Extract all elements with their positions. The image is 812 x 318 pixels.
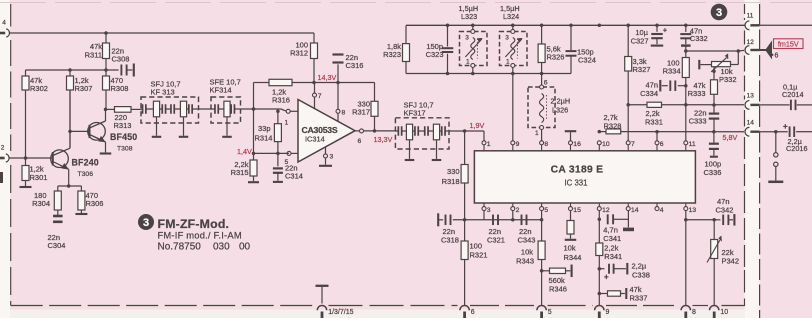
left white margin (0, 0, 10, 318)
resistor R302 47k (25, 70, 27, 76)
svg-text:12: 12 (602, 207, 610, 214)
resistor R313 220 (104, 108, 108, 112)
IC pin 10 top (597, 141, 601, 145)
IC pin 2 bottom (512, 203, 514, 206)
op-amp pin 7 (314, 83, 316, 93)
IC pin 6 top (655, 141, 659, 145)
svg-text:10: 10 (602, 141, 610, 148)
junction bus x685.8 (684, 24, 688, 28)
svg-text:IC314: IC314 (305, 135, 325, 144)
svg-text:BF240: BF240 (72, 158, 99, 168)
svg-text:22n: 22n (489, 227, 502, 236)
connector 9 bottom (598, 303, 600, 306)
svg-text:R337: R337 (630, 294, 648, 303)
svg-text:R321: R321 (470, 251, 488, 260)
badge 3 top right (711, 4, 728, 21)
inductor L326 2,2uH (528, 87, 555, 128)
svg-text:R312: R312 (290, 48, 308, 57)
top dashed border (0, 2, 812, 4)
resistor R301 1,2k + ground (25, 158, 27, 166)
op-amp pin 1 (290, 110, 298, 112)
svg-text:5: 5 (548, 309, 552, 316)
connector 8 bottom (685, 303, 687, 306)
jumper link + terminal below C2016 (775, 132, 777, 153)
svg-text:4: 4 (2, 20, 6, 27)
white connector strip (745, 0, 760, 318)
junction row73 x472.8 (471, 72, 475, 76)
svg-text:R333: R333 (688, 89, 706, 98)
svg-text:R314: R314 (255, 133, 273, 142)
junction bus x657 (655, 24, 659, 28)
bottom border seg5 (606, 305, 680, 307)
wire input to pin 1 (254, 109, 289, 111)
svg-text:KF317: KF317 (404, 109, 426, 118)
resistor R346 560k (540, 269, 544, 273)
IC pin 14 bottom (627, 203, 629, 206)
junction bus x628.2 (626, 24, 630, 28)
resistor R317 330 (374, 83, 376, 102)
svg-text:13: 13 (747, 93, 755, 100)
svg-text:5,8V: 5,8V (723, 133, 738, 142)
IC pin 16 top (569, 141, 573, 145)
IC pin 7 top (626, 141, 630, 145)
wire row to C342/P342 (686, 219, 714, 221)
svg-text:IC 331: IC 331 (565, 179, 588, 188)
resistor R344 10k + ground (570, 211, 572, 221)
svg-text:R341: R341 (604, 252, 622, 261)
capacitor C336 100p (713, 132, 715, 143)
svg-text:6: 6 (660, 141, 664, 148)
svg-text:+: + (604, 273, 609, 282)
svg-text:R323: R323 (383, 50, 401, 59)
svg-text:C333: C333 (689, 117, 707, 126)
svg-text:R308: R308 (111, 84, 129, 93)
bottom border seg1 (11, 305, 316, 307)
IC pin 11 top (684, 141, 688, 145)
wire pin 12 column to connector 9 (598, 211, 600, 303)
capacitor C338 2,2u (599, 268, 604, 270)
svg-text:T308: T308 (117, 146, 133, 153)
svg-text:10k: 10k (521, 248, 533, 257)
capacitor C341 4,7n (607, 214, 609, 224)
ground IC pin 16 (570, 132, 572, 140)
svg-text:10: 10 (720, 309, 728, 316)
svg-text:5: 5 (544, 207, 548, 214)
svg-text:R318: R318 (442, 177, 460, 186)
inductor L324 1,5uH variable (512, 25, 514, 31)
svg-text:R306: R306 (86, 199, 104, 208)
resistor R318 330 (464, 131, 466, 165)
strip right border (759, 4, 761, 318)
svg-text:3: 3 (505, 34, 509, 41)
svg-text:8: 8 (544, 141, 548, 148)
junctions row 131.7 (655, 130, 659, 134)
svg-text:C2016: C2016 (786, 144, 808, 153)
IC pin 9 top (511, 141, 515, 145)
svg-text:22n: 22n (443, 227, 456, 236)
svg-text:FM-IF mod./ F.I-AM: FM-IF mod./ F.I-AM (158, 230, 242, 241)
wire KF317 output / 1,9V node (449, 130, 484, 132)
IC pin 4 bottom (656, 203, 658, 206)
svg-text:7: 7 (631, 141, 635, 148)
connector 1/3/7/15 bottom (317, 306, 326, 311)
bottom border seg3 (470, 305, 535, 307)
svg-text:R301: R301 (30, 173, 48, 182)
IC pin 15 bottom (570, 203, 572, 206)
resistor R316 1,2k (254, 82, 270, 84)
op-amp pin 5 (291, 152, 298, 154)
svg-text:16: 16 (573, 141, 581, 148)
svg-text:12: 12 (747, 39, 755, 46)
wire output pin 6 (355, 130, 395, 132)
capacitor C308 22n (120, 65, 122, 76)
wire to IC pin 6 (656, 132, 658, 141)
capacitor C324 150p (570, 25, 572, 50)
resistor R304 180 (57, 186, 59, 191)
bottom border seg6 (693, 305, 709, 307)
op-amp pin 3 + ground (325, 147, 327, 154)
potentiometer P342 22k (713, 220, 715, 240)
label box fm15V red (774, 39, 804, 49)
left border seg2 (10, 40, 12, 151)
bottom white band (10, 310, 745, 318)
svg-text:C308: C308 (112, 55, 130, 64)
svg-text:13: 13 (689, 207, 697, 214)
svg-text:2: 2 (516, 207, 520, 214)
strip left border seg a (744, 4, 746, 20)
junction bus x447.5 (446, 24, 450, 28)
svg-text:00: 00 (239, 242, 251, 253)
svg-text:C323: C323 (426, 50, 444, 59)
wire 1,4V row to pin 5 (254, 152, 290, 154)
svg-text:2,2µH: 2,2µH (551, 97, 571, 106)
capacitor C304 22n (53, 215, 63, 218)
svg-text:C318: C318 (441, 236, 459, 245)
wire R327 to IC pin 7 (627, 105, 629, 141)
connector 13 right (745, 101, 749, 110)
svg-text:R343: R343 (516, 257, 534, 266)
svg-text:1/3/7/15: 1/3/7/15 (328, 309, 353, 316)
capacitor C342 47n (714, 219, 720, 221)
resistor R312 100 (313, 33, 315, 43)
left border seg3 (10, 165, 12, 306)
svg-text:6: 6 (775, 53, 779, 60)
ground bar above connector 1/3/7/15 (321, 287, 323, 304)
svg-text:C321: C321 (487, 236, 505, 245)
svg-text:C342: C342 (716, 205, 734, 214)
svg-text:1: 1 (535, 130, 539, 137)
IC pin 1 top (482, 141, 486, 145)
wire P332 right leg (737, 51, 739, 65)
svg-text:1: 1 (466, 59, 470, 66)
svg-text:9: 9 (516, 141, 520, 148)
junctions row 105 (684, 103, 688, 107)
svg-text:+: + (663, 26, 668, 35)
svg-text:fm15V: fm15V (778, 39, 799, 48)
transistor Q BF240 T306 (51, 150, 69, 168)
label +6 (771, 54, 773, 56)
svg-text:R327: R327 (633, 65, 651, 74)
wire R326 to L326 pin 6 (541, 74, 543, 86)
capacitor C323 150p (447, 25, 449, 46)
svg-text:KF 313: KF 313 (151, 87, 175, 96)
wire bias row y70 (26, 69, 119, 71)
left border seg1 (10, 4, 12, 27)
capacitor C316 22n (337, 64, 339, 82)
svg-text:R311: R311 (85, 50, 102, 59)
connector 14 right (745, 127, 749, 136)
strip left border seg d (744, 110, 746, 127)
wire top bus right section (406, 24, 745, 26)
svg-text:22n: 22n (519, 227, 532, 236)
capacitor C332 47n (685, 25, 687, 32)
transistor Q BF450 T308 + emitter ground (88, 123, 106, 141)
bottom border seg2 (329, 305, 458, 307)
capacitor C327 10u (656, 25, 658, 32)
svg-text:C304: C304 (48, 241, 66, 250)
badge 3 title (138, 214, 154, 230)
bottom border seg4 (548, 305, 594, 307)
junction bus/R311 (104, 31, 108, 35)
capacitor C321 22n (492, 215, 494, 226)
svg-text:R315: R315 (231, 168, 249, 177)
svg-text:8: 8 (342, 109, 346, 116)
svg-text:T306: T306 (78, 171, 94, 178)
potentiometer P332 10k (712, 62, 731, 67)
svg-text:3: 3 (487, 207, 491, 214)
strip left border seg e (744, 137, 746, 268)
svg-text:L324: L324 (503, 12, 519, 21)
svg-text:6: 6 (544, 80, 548, 87)
resistor R308 470 (105, 70, 107, 76)
svg-text:15: 15 (573, 207, 581, 214)
junction row73 x512.8 (511, 72, 515, 76)
resistor R341 2,2k (596, 243, 603, 256)
IC pin 13 bottom (685, 203, 687, 206)
wire pin 13 column to connector 8 (685, 211, 687, 303)
junction emitter split (67, 184, 71, 188)
wire bias vertical x253 (253, 83, 255, 154)
svg-text:3: 3 (465, 34, 469, 41)
wire BF240 collector to BF450 base (70, 130, 90, 132)
svg-text:CA3053S: CA3053S (302, 125, 338, 135)
resistor R306 470 + ground (80, 186, 82, 191)
wire/resistor R328 2,7k row to connector 14 (599, 131, 606, 133)
svg-text:C343: C343 (518, 236, 536, 245)
junction bus x541.6 (540, 24, 544, 28)
svg-text:C334: C334 (640, 89, 658, 98)
component R314 33p (277, 111, 279, 123)
resistor R343 10k (541, 220, 543, 241)
connector 10 bottom (713, 303, 715, 306)
bottom border seg7 + right corner (722, 270, 745, 306)
scan blob left edge (0, 172, 3, 183)
junctions on bias row (68, 68, 72, 72)
wire KF314 to input node (241, 108, 254, 110)
svg-text:R346: R346 (549, 285, 567, 294)
resistor R307 1,2k (69, 70, 71, 76)
capacitor C333 22n (713, 105, 715, 113)
svg-text:4: 4 (660, 207, 664, 214)
IC U331 CA3189E box (474, 151, 695, 203)
junction row73 x541.6 (540, 72, 544, 76)
svg-text:8: 8 (692, 309, 696, 316)
svg-text:1: 1 (285, 120, 289, 127)
svg-text:33p: 33p (258, 124, 271, 133)
svg-text:030: 030 (213, 242, 230, 253)
svg-text:C316: C316 (346, 61, 364, 70)
junctions row 220 (463, 218, 467, 222)
svg-text:1,9V: 1,9V (470, 121, 485, 130)
capacitor C343 22n (521, 215, 523, 226)
wire KF313 to KF314 (199, 108, 212, 110)
svg-text:R317: R317 (352, 108, 370, 117)
IC pin 12 bottom (598, 203, 600, 206)
svg-text:R326: R326 (547, 53, 565, 62)
IC pin 3 bottom (483, 203, 485, 206)
svg-text:No.78750: No.78750 (158, 242, 202, 253)
svg-text:L323: L323 (461, 12, 477, 21)
svg-text:P342: P342 (722, 256, 740, 265)
connector 2 left edge (0, 157, 5, 160)
svg-text:R331: R331 (645, 118, 663, 127)
svg-text:3: 3 (330, 153, 334, 160)
capacitor C334 47n (684, 84, 688, 88)
svg-text:R313: R313 (114, 121, 132, 130)
filter KF317 SFJ 10,7 (395, 130, 449, 132)
svg-text:C314: C314 (285, 171, 303, 180)
svg-text:14,3V: 14,3V (318, 73, 337, 82)
svg-text:330: 330 (447, 167, 460, 176)
resistor R337 47k (599, 293, 607, 295)
svg-text:C324: C324 (578, 56, 596, 65)
svg-text:C338: C338 (632, 270, 650, 279)
inductor L323 1,5uH variable (472, 25, 474, 31)
resistor R327 3,3k (627, 25, 629, 56)
svg-text:C332: C332 (690, 34, 708, 43)
junction row73 x447.5 (446, 72, 450, 76)
op-amp U CA3053S triangle (298, 100, 355, 163)
svg-text:R344: R344 (564, 253, 582, 262)
resistor R333 47k (712, 69, 716, 73)
op-amp pin 8 (337, 83, 339, 109)
strip left border seg b (744, 31, 746, 45)
svg-text:BF450: BF450 (110, 132, 137, 142)
connector 5 bottom (541, 303, 543, 306)
wire 14,3V rail (312, 81, 316, 85)
capacitor C2014 0,1u (760, 104, 790, 106)
resistor R315 2,2k + ground (253, 153, 255, 160)
IC pin 8 top (540, 141, 544, 145)
ground thick bar pin 14 / C341 (627, 211, 629, 228)
svg-text:14: 14 (631, 207, 639, 214)
junctions pin12 column (598, 218, 602, 222)
svg-text:6: 6 (358, 138, 362, 145)
connector 4 left edge (0, 32, 5, 35)
svg-text:1: 1 (487, 141, 491, 148)
svg-text:CA 3189 E: CA 3189 E (551, 165, 604, 176)
svg-text:13,3V: 13,3V (374, 135, 393, 144)
arrow fm15V feed (766, 42, 772, 58)
strip left border seg c (744, 56, 746, 100)
resistor R323 1,8k (405, 25, 407, 43)
svg-text:11: 11 (747, 13, 754, 20)
svg-text:C341: C341 (603, 234, 621, 243)
svg-text:100: 100 (470, 242, 483, 251)
wire base row from connector 2 (9, 157, 52, 159)
svg-text:1,4V: 1,4V (237, 147, 252, 156)
wires IC pins 3/2/5 to row 220 (483, 211, 485, 220)
svg-text:6: 6 (471, 309, 475, 316)
resistor R326 5,6k (541, 25, 543, 44)
connector 11 right (745, 21, 749, 30)
connector 12 right (745, 46, 749, 55)
svg-text:10k: 10k (564, 244, 576, 253)
svg-text:3: 3 (716, 7, 722, 19)
filter KF314 SFE 10,7 (211, 108, 241, 110)
wire row 220 (453, 219, 542, 221)
svg-text:R328: R328 (604, 121, 622, 130)
resistor R321 100 (464, 220, 466, 241)
filter KF313 SFJ 10,7 (141, 108, 145, 110)
svg-text:+: + (783, 122, 788, 131)
wire net 11 to edge (760, 24, 812, 26)
svg-text:R316: R316 (272, 96, 290, 105)
junction bus x472.8 (471, 24, 475, 28)
wire row y73 (406, 73, 571, 75)
svg-text:14: 14 (747, 120, 755, 127)
capacitor C318 22n (437, 213, 439, 226)
svg-text:R302: R302 (30, 84, 48, 93)
wire to IC pin 1 (483, 131, 485, 141)
svg-text:7: 7 (318, 93, 322, 100)
capacitor C2016 2,2u (760, 131, 788, 133)
IC pin 5 bottom (541, 203, 543, 206)
resistor R334 100 (685, 51, 687, 58)
junction bus x512.8 (511, 24, 515, 28)
svg-text:1: 1 (506, 59, 510, 66)
svg-text:C2014: C2014 (782, 90, 804, 99)
svg-text:R334: R334 (663, 66, 681, 75)
svg-text:P332: P332 (719, 75, 737, 84)
wire fm15V supply from connector 12 (686, 50, 739, 52)
svg-text:C336: C336 (704, 168, 722, 177)
connector 6 bottom (464, 303, 466, 306)
svg-text:KF314: KF314 (210, 85, 232, 94)
svg-text:L326: L326 (552, 105, 568, 114)
junction bus x571 (569, 24, 573, 28)
capacitor C314 22n + ground (277, 153, 279, 166)
svg-text:11: 11 (689, 141, 696, 148)
junction bus x599.3 (598, 24, 602, 28)
svg-text:R307: R307 (75, 84, 93, 93)
resistor R311 47k (105, 33, 107, 43)
svg-text:9: 9 (606, 309, 610, 316)
svg-text:R304: R304 (32, 199, 50, 208)
svg-text:2: 2 (1, 145, 5, 152)
wire/resistor R331 2,2k row to connector 13 (628, 104, 647, 106)
svg-text:C327: C327 (631, 36, 649, 45)
wire supply bus from connector 4 (9, 32, 314, 34)
svg-text:3: 3 (143, 217, 149, 229)
